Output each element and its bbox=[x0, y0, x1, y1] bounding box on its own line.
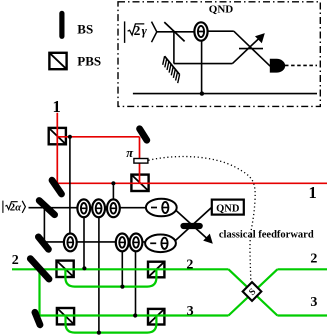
svg-text:3: 3 bbox=[187, 304, 194, 319]
svg-text:1: 1 bbox=[53, 97, 61, 116]
svg-text:BS: BS bbox=[77, 21, 93, 36]
svg-text:QND: QND bbox=[216, 203, 240, 214]
svg-text:1: 1 bbox=[309, 183, 317, 202]
svg-text:α: α bbox=[15, 202, 21, 213]
svg-text:2: 2 bbox=[134, 23, 141, 38]
svg-text:3: 3 bbox=[310, 295, 317, 310]
svg-text:π: π bbox=[126, 146, 134, 160]
svg-text:γ: γ bbox=[142, 24, 148, 38]
svg-text:QND: QND bbox=[209, 4, 234, 16]
svg-text:2: 2 bbox=[310, 252, 317, 267]
svg-text:2: 2 bbox=[12, 253, 19, 268]
svg-text:2: 2 bbox=[186, 257, 193, 272]
svg-text:PBS: PBS bbox=[77, 54, 101, 69]
svg-text:classical feedforward: classical feedforward bbox=[219, 230, 314, 241]
